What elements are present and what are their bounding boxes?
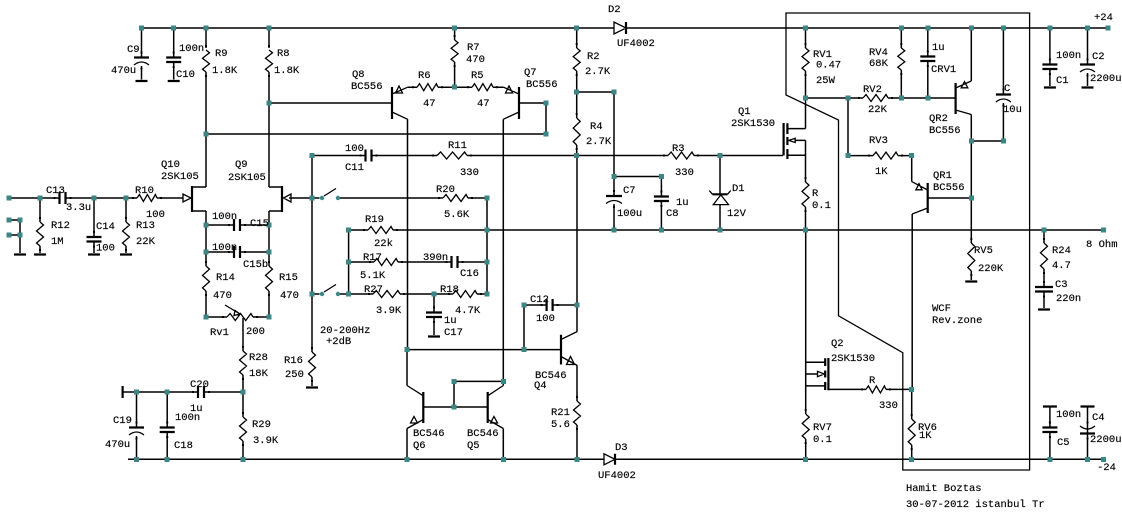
svg-text:C14: C14 (96, 221, 115, 233)
svg-text:C2: C2 (1092, 51, 1105, 63)
svg-text:220n: 220n (1056, 293, 1081, 305)
svg-text:R2: R2 (587, 51, 600, 63)
svg-text:Q2: Q2 (831, 338, 844, 350)
svg-text:330: 330 (879, 400, 898, 412)
svg-text:25W: 25W (816, 75, 836, 87)
svg-text:R6: R6 (418, 70, 431, 82)
svg-text:CRV1: CRV1 (931, 64, 956, 76)
svg-text:1.8K: 1.8K (212, 65, 238, 77)
svg-text:R21: R21 (551, 407, 570, 419)
svg-text:C9: C9 (127, 44, 140, 56)
svg-text:47: 47 (477, 98, 490, 110)
svg-text:2SK1530: 2SK1530 (831, 353, 875, 365)
svg-text:R24: R24 (1052, 245, 1071, 257)
svg-text:C5: C5 (1057, 437, 1070, 449)
svg-text:2200u: 2200u (1090, 73, 1122, 85)
svg-text:C4: C4 (1092, 412, 1105, 424)
svg-text:12V: 12V (727, 208, 747, 220)
svg-text:C10: C10 (176, 69, 195, 81)
svg-text:1.8K: 1.8K (274, 65, 300, 77)
svg-text:R17: R17 (363, 252, 382, 264)
svg-text:RV3: RV3 (869, 135, 888, 147)
svg-text:100n: 100n (175, 412, 200, 424)
svg-text:Hamit Boztas: Hamit Boztas (906, 483, 982, 495)
svg-text:2200u: 2200u (1090, 434, 1122, 446)
svg-text:R14: R14 (216, 272, 235, 284)
svg-text:3.9K: 3.9K (253, 435, 279, 447)
svg-text:2SK1530: 2SK1530 (731, 118, 775, 130)
svg-text:100n: 100n (1056, 50, 1081, 62)
svg-text:470: 470 (213, 290, 232, 302)
svg-text:C19: C19 (113, 415, 132, 427)
svg-text:R20: R20 (436, 184, 455, 196)
svg-text:R27: R27 (364, 284, 383, 296)
svg-text:30-07-2012 istanbul Tr: 30-07-2012 istanbul Tr (906, 499, 1045, 511)
svg-text:4.7: 4.7 (1052, 260, 1071, 272)
svg-text:C15b: C15b (243, 259, 268, 271)
svg-text:Q6: Q6 (413, 440, 426, 452)
svg-text:5.1K: 5.1K (360, 270, 386, 282)
svg-text:BC556: BC556 (933, 182, 965, 194)
svg-text:C20: C20 (190, 379, 209, 391)
svg-text:C15: C15 (250, 218, 269, 230)
svg-text:18K: 18K (249, 368, 269, 380)
svg-text:C18: C18 (174, 440, 193, 452)
svg-text:RV5: RV5 (974, 245, 993, 257)
svg-text:Q5: Q5 (467, 440, 480, 452)
svg-text:+2dB: +2dB (326, 336, 351, 348)
svg-text:R16: R16 (284, 355, 303, 367)
svg-text:R11: R11 (448, 140, 467, 152)
svg-text:R12: R12 (51, 220, 70, 232)
svg-text:UF4002: UF4002 (617, 38, 655, 50)
svg-text:Q8: Q8 (352, 69, 365, 81)
svg-text:390n: 390n (423, 252, 448, 264)
svg-text:BC556: BC556 (351, 81, 383, 93)
svg-text:250: 250 (285, 369, 304, 381)
svg-text:3.9K: 3.9K (376, 305, 402, 317)
svg-text:2.7K: 2.7K (585, 66, 611, 78)
svg-text:QR2: QR2 (929, 113, 948, 125)
svg-text:D3: D3 (615, 442, 628, 454)
svg-text:22k: 22k (374, 238, 393, 250)
svg-text:R13: R13 (136, 220, 155, 232)
svg-text:BC556: BC556 (929, 125, 961, 137)
svg-text:470u: 470u (111, 65, 136, 77)
svg-text:100n: 100n (212, 242, 237, 254)
svg-text:C1: C1 (1056, 75, 1069, 87)
svg-text:Q4: Q4 (534, 380, 547, 392)
svg-text:R28: R28 (249, 352, 268, 364)
svg-text:BC546: BC546 (413, 428, 445, 440)
svg-text:UF4002: UF4002 (598, 470, 636, 482)
svg-text:Q1: Q1 (738, 106, 751, 118)
svg-text:8 Ohm: 8 Ohm (1086, 239, 1118, 251)
svg-text:R: R (869, 375, 876, 387)
svg-text:5.6: 5.6 (551, 419, 570, 431)
svg-text:0.1: 0.1 (813, 434, 832, 446)
svg-text:2SK105: 2SK105 (161, 171, 199, 183)
svg-text:C16: C16 (460, 268, 479, 280)
svg-text:200: 200 (246, 326, 265, 338)
svg-text:22K: 22K (136, 236, 156, 248)
svg-text:22K: 22K (868, 104, 888, 116)
svg-text:330: 330 (460, 167, 479, 179)
svg-text:68K: 68K (869, 58, 889, 70)
svg-text:BC546: BC546 (467, 428, 499, 440)
svg-text:BC556: BC556 (526, 79, 558, 91)
svg-text:R10: R10 (135, 185, 154, 197)
svg-text:R15: R15 (279, 272, 298, 284)
svg-text:1u: 1u (444, 315, 457, 327)
svg-text:0.47: 0.47 (816, 60, 841, 72)
svg-text:330: 330 (675, 167, 694, 179)
svg-text:R: R (812, 188, 819, 200)
svg-text:Q9: Q9 (235, 159, 248, 171)
svg-text:470: 470 (280, 290, 299, 302)
svg-text:1u: 1u (932, 42, 945, 54)
svg-text:R18: R18 (440, 284, 459, 296)
svg-text:R3: R3 (672, 143, 685, 155)
svg-text:C8: C8 (666, 208, 679, 220)
svg-text:100: 100 (96, 243, 115, 255)
svg-text:100n: 100n (1056, 409, 1081, 421)
svg-text:220K: 220K (978, 263, 1004, 275)
svg-text:470u: 470u (105, 439, 130, 451)
svg-text:100: 100 (536, 313, 555, 325)
svg-text:D2: D2 (608, 4, 621, 16)
svg-text:Q7: Q7 (524, 67, 537, 79)
svg-text:10u: 10u (1003, 104, 1022, 116)
svg-text:WCF: WCF (932, 303, 951, 315)
svg-text:0.1: 0.1 (812, 200, 831, 212)
svg-text:+24: +24 (1094, 12, 1113, 24)
svg-text:RV7: RV7 (813, 422, 832, 434)
svg-text:100n: 100n (212, 211, 237, 223)
svg-text:R4: R4 (590, 121, 603, 133)
svg-text:-24: -24 (1097, 462, 1116, 474)
svg-text:R19: R19 (365, 214, 384, 226)
svg-text:R7: R7 (467, 42, 480, 54)
svg-text:100n: 100n (179, 43, 204, 55)
svg-text:C12: C12 (530, 294, 549, 306)
svg-text:Q10: Q10 (161, 159, 180, 171)
svg-text:100u: 100u (617, 208, 642, 220)
svg-text:2SK105: 2SK105 (228, 172, 266, 184)
svg-text:C17: C17 (444, 327, 463, 339)
svg-text:C11: C11 (345, 162, 364, 174)
svg-text:Rv1: Rv1 (210, 327, 229, 339)
svg-text:QR1: QR1 (933, 170, 952, 182)
svg-text:5.6K: 5.6K (444, 209, 470, 221)
svg-text:2.7K: 2.7K (586, 136, 612, 148)
svg-text:C7: C7 (623, 185, 636, 197)
svg-text:4.7K: 4.7K (455, 305, 481, 317)
svg-text:D1: D1 (732, 183, 745, 195)
svg-text:RV2: RV2 (863, 84, 882, 96)
svg-text:1K: 1K (919, 430, 932, 442)
svg-text:R8: R8 (277, 48, 290, 60)
svg-text:R29: R29 (252, 419, 271, 431)
svg-text:C3: C3 (1055, 279, 1068, 291)
svg-text:1M: 1M (51, 236, 64, 248)
svg-text:R9: R9 (215, 48, 228, 60)
svg-text:47: 47 (423, 98, 436, 110)
svg-text:100: 100 (345, 143, 364, 155)
svg-text:3.3u: 3.3u (66, 202, 91, 214)
svg-text:Rev.zone: Rev.zone (932, 315, 982, 327)
svg-text:1K: 1K (875, 166, 888, 178)
svg-text:470: 470 (466, 54, 485, 66)
svg-text:C: C (1004, 83, 1010, 95)
svg-text:C13: C13 (46, 185, 65, 197)
svg-text:R5: R5 (471, 70, 484, 82)
